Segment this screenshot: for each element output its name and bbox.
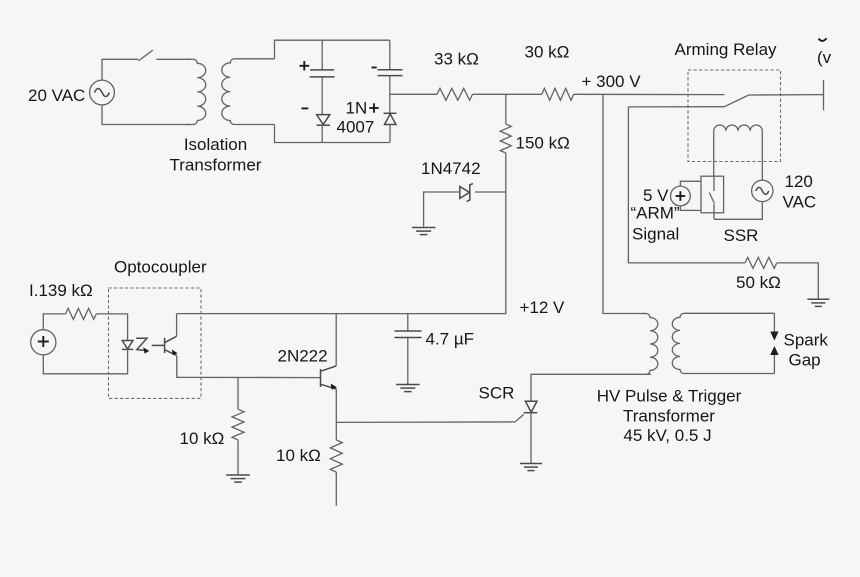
wire D1 to bottom rail xyxy=(321,125,323,142)
svg-text:1N4742: 1N4742 xyxy=(421,159,481,178)
wire cap stub xyxy=(407,314,409,331)
svg-text:30 kΩ: 30 kΩ xyxy=(525,43,570,62)
wire V4 top xyxy=(43,314,65,330)
wire relay com down xyxy=(628,107,745,263)
wire rect top rail xyxy=(275,40,390,59)
wire node A down xyxy=(505,94,507,124)
svg-text:Optocoupler: Optocoupler xyxy=(114,258,207,277)
wire Q1 emitter down xyxy=(177,356,321,378)
wire Q2 emitter down xyxy=(335,389,337,422)
wire R3 to +12 corner xyxy=(177,153,506,314)
wire source bottom xyxy=(102,105,190,125)
ground SCR xyxy=(520,463,542,465)
label C1 minus xyxy=(302,107,309,109)
resistor R4 50 kOhm xyxy=(745,257,777,268)
DC source V4 xyxy=(31,330,56,355)
wire 5V to SSR bottom xyxy=(680,206,701,211)
svg-text:“ARM”: “ARM” xyxy=(631,204,680,223)
wire R5 to LED xyxy=(96,314,127,340)
svg-text:I.139 kΩ: I.139 kΩ xyxy=(29,281,93,300)
wire Q1 collector up xyxy=(176,314,178,337)
wire rect out xyxy=(390,93,437,95)
wire emitter node to SCR gate xyxy=(336,421,515,424)
svg-text:Spark: Spark xyxy=(784,331,829,350)
diode D1 1N4007 xyxy=(317,115,330,125)
label fragment top right xyxy=(819,38,827,41)
DC source V2 5V xyxy=(671,186,691,206)
wire relay lower contact xyxy=(628,106,724,108)
svg-text:150 kΩ: 150 kΩ xyxy=(516,134,570,153)
switch SW1 blade xyxy=(138,50,152,61)
diode D2 1N4007 xyxy=(384,112,397,114)
svg-text:SCR: SCR xyxy=(479,384,515,403)
svg-text:2N222: 2N222 xyxy=(278,347,328,366)
svg-text:50 kΩ: 50 kΩ xyxy=(736,273,781,292)
ground R4 xyxy=(807,298,829,300)
svg-text:4.7 µF: 4.7 µF xyxy=(426,330,475,349)
wire LED cathode down xyxy=(43,349,127,373)
wire switch to transformer xyxy=(156,58,190,60)
wire R2 to relay contact xyxy=(574,93,725,95)
svg-text:VAC: VAC xyxy=(783,193,817,212)
svg-text:20 VAC: 20 VAC xyxy=(28,86,85,105)
wire SCR cathode xyxy=(530,413,532,463)
wire SSR out bottom xyxy=(714,202,762,220)
wire R7 node xyxy=(335,422,337,440)
svg-text:(v: (v xyxy=(817,48,832,67)
phototransistor Q1 xyxy=(164,338,166,353)
svg-text:45 kV, 0.5 J: 45 kV, 0.5 J xyxy=(623,426,711,445)
relay coil K1 xyxy=(714,125,763,131)
svg-text:10 kΩ: 10 kΩ xyxy=(180,429,225,448)
svg-text:Isolation: Isolation xyxy=(184,135,247,154)
wire relay output xyxy=(749,94,824,96)
svg-text:+12 V: +12 V xyxy=(520,298,566,317)
wire rect right vertical upper xyxy=(389,40,391,70)
zener diode D3 1N4742 xyxy=(460,187,470,199)
HV transformer T2 primary xyxy=(646,314,658,375)
wire 5V to SSR top xyxy=(680,181,701,186)
wire 300V down to primary xyxy=(603,94,646,313)
terminal to cap bank xyxy=(823,80,825,110)
svg-text:10 kΩ: 10 kΩ xyxy=(276,446,321,465)
wire R7 bottom stub xyxy=(335,472,337,506)
svg-text:4007: 4007 xyxy=(337,118,375,137)
arming relay dashed box xyxy=(688,70,781,162)
ground R6 xyxy=(226,474,250,476)
svg-text:33 kΩ: 33 kΩ xyxy=(434,50,479,69)
label D2 plus xyxy=(369,107,378,109)
ground zener xyxy=(412,227,436,229)
transformer T1 primary winding xyxy=(193,59,205,124)
svg-text:5 V: 5 V xyxy=(643,186,669,205)
relay switch blade xyxy=(724,95,748,107)
wire cap to ground xyxy=(407,338,409,385)
resistor R7 10 kOhm xyxy=(330,440,342,472)
AC source V3 120 VAC xyxy=(752,180,773,201)
wire C1 to D1 xyxy=(321,77,323,115)
resistor R2 30 kOhm xyxy=(542,88,574,100)
wire R4 to ground xyxy=(777,263,819,299)
resistor R1 33 kOhm xyxy=(437,88,473,100)
label C2 minus xyxy=(372,67,377,69)
wire R1 to R2 xyxy=(473,93,542,95)
svg-text:Transformer: Transformer xyxy=(623,406,715,425)
wire rect mid vertical upper xyxy=(321,40,323,70)
wire D2 to bottom rail xyxy=(389,125,391,143)
svg-text:SSR: SSR xyxy=(724,226,759,245)
SSR box xyxy=(701,176,724,213)
wire base junction down xyxy=(237,377,239,409)
SSR internal switch xyxy=(713,176,715,191)
svg-text:HV Pulse & Trigger: HV Pulse & Trigger xyxy=(597,387,742,406)
ground C3 xyxy=(396,384,420,386)
resistor R3 150 kOhm xyxy=(500,124,511,153)
SCR gate lead xyxy=(515,414,524,422)
spark gap bottom electrode xyxy=(773,355,775,374)
wire R6 to ground xyxy=(237,440,239,475)
transistor Q2 2N222 xyxy=(320,369,322,387)
svg-text:+ 300 V: + 300 V xyxy=(582,72,642,91)
svg-text:Gap: Gap xyxy=(789,351,821,370)
wire zener anode xyxy=(424,192,460,227)
spark gap top electrode xyxy=(773,313,775,332)
svg-text:Transformer: Transformer xyxy=(170,156,262,175)
wire source top xyxy=(102,59,138,80)
wire C2 to D2 xyxy=(389,76,391,114)
SCR Q3 xyxy=(525,401,537,412)
svg-text:1N: 1N xyxy=(346,99,368,118)
wire zener node xyxy=(475,191,506,193)
AC source V1 20 VAC xyxy=(90,80,115,105)
wire rect bottom rail xyxy=(275,125,390,143)
LED light arrows xyxy=(136,338,147,350)
svg-text:Signal: Signal xyxy=(632,225,679,244)
capacitor C2 xyxy=(378,69,403,71)
label C1 plus xyxy=(300,65,310,67)
svg-text:120: 120 xyxy=(785,172,813,191)
wire Q2 collector xyxy=(335,314,337,366)
optocoupler dashed box xyxy=(109,288,202,398)
wire SCR anode xyxy=(531,374,651,401)
phototransistor Q1 base link xyxy=(152,344,164,346)
resistor R5 1.139 kOhm xyxy=(66,308,97,319)
LED D4 xyxy=(122,341,133,350)
transformer T1 secondary winding xyxy=(222,59,235,125)
capacitor C1 xyxy=(310,69,334,71)
capacitor C3 4.7uF xyxy=(395,330,422,332)
HV transformer T2 secondary xyxy=(672,313,684,373)
resistor R6 10 kOhm xyxy=(232,409,244,440)
svg-text:Arming Relay: Arming Relay xyxy=(675,40,778,59)
